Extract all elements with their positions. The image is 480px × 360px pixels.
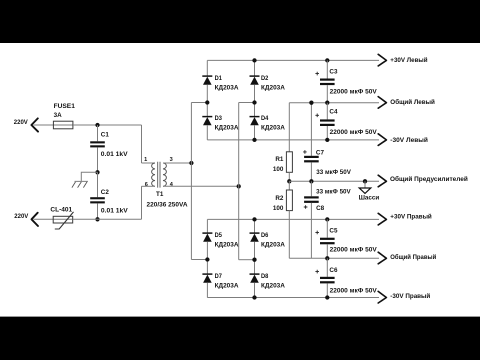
svg-text:C1: C1 [101, 131, 110, 138]
wire pin3 bus to D5/D7 junction [191, 259, 207, 261]
output arrow head (-30V Правый) [378, 291, 386, 303]
wire D5 anode to D7 cathode [206, 242, 208, 274]
wire rail Общий Предусилителей [289, 180, 379, 182]
wire D1 anode to D3 cathode [206, 85, 208, 117]
wire C1 top lead [97, 125, 99, 141]
output arrow head (+30V Левый) [378, 54, 386, 66]
wire R2 top lead [288, 181, 290, 190]
wire C5 top lead [326, 219, 328, 237]
wire mains bottom: arrow to varistor [34, 218, 54, 220]
wire R2 bottom to ОбщП rail [288, 211, 290, 259]
wire down to T1 pin 1 [141, 125, 143, 163]
svg-text:D1: D1 [215, 75, 223, 82]
svg-text:КД203А: КД203А [261, 125, 285, 132]
svg-text:КД203А: КД203А [215, 242, 239, 249]
svg-text:22000 мкФ 50V: 22000 мкФ 50V [330, 129, 378, 136]
resistor R1 [286, 152, 292, 173]
output arrow head (Общий Правый) [378, 252, 386, 264]
polarity "+" of C6 [315, 270, 319, 274]
svg-text:Общий Правый: Общий Правый [390, 253, 436, 261]
wire rail Общий Правый [289, 257, 379, 259]
wire D6 top lead [254, 219, 256, 233]
wire C6 bottom lead [326, 283, 328, 297]
svg-text:D8: D8 [261, 273, 269, 280]
wire D1 top lead [206, 60, 208, 76]
wire pin3 vertical bus [190, 103, 192, 260]
wire C2 bottom lead [97, 203, 99, 219]
wire C1 bottom to mid junction [97, 147, 99, 172]
svg-text:T1: T1 [156, 191, 164, 198]
wire T1 pin 4 to AC node [163, 185, 239, 187]
wire D2 top lead [254, 60, 256, 76]
svg-text:33 мкФ 50V: 33 мкФ 50V [316, 169, 351, 176]
svg-text:+30V Левый: +30V Левый [390, 56, 427, 64]
capacitor C4 plates [320, 119, 335, 126]
svg-text:0.01 1kV: 0.01 1kV [101, 151, 129, 158]
wire varistor to transformer corner [73, 218, 142, 220]
wire rail +30V Левый [207, 59, 379, 61]
svg-text:FUSE1: FUSE1 [54, 103, 76, 110]
svg-text:КД203А: КД203А [215, 85, 239, 92]
diode D8 (КД203А), cathode bar top, triangle pointing up [250, 274, 260, 283]
svg-text:R1: R1 [275, 156, 284, 163]
polarity "+" of C8 [304, 205, 308, 209]
diode D3 (КД203А), cathode bar top, triangle pointing up [202, 117, 212, 126]
node junction mains-bottom / C2 [95, 217, 99, 221]
wire C5 bottom lead [326, 244, 328, 258]
svg-text:220/36 250VA: 220/36 250VA [147, 202, 188, 209]
capacitor C6 plates [320, 277, 335, 284]
svg-text:D2: D2 [261, 75, 269, 82]
node junction C1/C2/ground [95, 170, 99, 174]
svg-text:6: 6 [145, 182, 148, 188]
wire pin4 bus to D6/D8 junction [239, 259, 255, 261]
svg-text:КД203А: КД203А [215, 283, 239, 290]
svg-text:3: 3 [170, 157, 173, 163]
svg-text:22000 мкФ 50V: 22000 мкФ 50V [330, 247, 378, 254]
transformer T1 core [158, 162, 160, 188]
polarity "+" of C3 [315, 72, 319, 76]
output arrow head (Общий Левый) [378, 97, 386, 109]
node node D2 top on +30L rail [252, 58, 256, 62]
svg-text:220V: 220V [14, 214, 28, 220]
node node C4 bottom on -30L rail [325, 138, 329, 142]
wire mains top: arrow to fuse [34, 124, 54, 126]
wire C6 top lead [326, 258, 328, 277]
node D2/D4 AC junction [252, 100, 256, 104]
wire C3 bottom lead [326, 85, 328, 103]
wire C7 bottom lead [310, 162, 312, 181]
svg-text:CL-401: CL-401 [50, 206, 72, 213]
diode D4 (КД203А), cathode bar top, triangle pointing up [250, 117, 260, 126]
wire rail -30V Правый [207, 297, 379, 299]
svg-text:220V: 220V [14, 120, 28, 126]
diode D2 (КД203А), cathode bar top, triangle pointing up [250, 76, 260, 85]
diode D5 (КД203А), cathode bar top, triangle pointing up [202, 233, 212, 242]
220V input arrow (bottom line) [32, 213, 39, 226]
wire up to T1 pin 6 [141, 186, 143, 219]
svg-text:22000 мкФ 50V: 22000 мкФ 50V [330, 287, 378, 294]
svg-text:C8: C8 [316, 205, 325, 212]
polarity "+" of C5 [315, 231, 319, 235]
node node C3/C4 on ОбщЛ rail [325, 101, 329, 105]
svg-text:D4: D4 [261, 115, 269, 122]
svg-text:R2: R2 [275, 195, 284, 202]
chassis ground symbol (Шасси) [359, 181, 371, 193]
node node C6 bottom on -30R rail [325, 295, 329, 299]
wire D7 bottom lead [206, 283, 208, 298]
node D6/D8 AC junction [252, 258, 256, 262]
svg-text:КД203А: КД203А [215, 125, 239, 132]
wire fuse to transformer corner [73, 124, 142, 126]
fuse FUSE1 body [53, 121, 73, 129]
svg-text:Шасси: Шасси [359, 195, 380, 202]
svg-text:КД203А: КД203А [261, 283, 285, 290]
polarity "+" of C4 [315, 114, 319, 118]
diode D7 (КД203А), cathode bar top, triangle pointing up [202, 274, 212, 283]
node node C7/C8 on mid rail [309, 179, 313, 183]
transformer T1 primary winding [142, 163, 156, 186]
wire R1 bottom lead [288, 172, 290, 181]
svg-text:D5: D5 [215, 232, 223, 239]
svg-text:C5: C5 [329, 227, 338, 234]
node node D8 bottom on -30R rail [252, 295, 256, 299]
svg-text:C3: C3 [329, 69, 338, 76]
svg-text:D7: D7 [215, 273, 223, 280]
svg-text:C7: C7 [316, 149, 325, 156]
svg-text:D6: D6 [261, 232, 269, 239]
svg-text:C2: C2 [101, 189, 110, 196]
svg-text:22000 мкФ 50V: 22000 мкФ 50V [330, 89, 378, 96]
wire D5 top lead [206, 219, 208, 233]
earth ground symbol [72, 172, 98, 187]
wire C4 top lead [326, 103, 328, 120]
resistor R2 [286, 190, 292, 211]
node D5/D7 AC junction [205, 257, 209, 261]
output arrow head (+30V Правый) [378, 213, 386, 225]
wire D2 anode to D4 cathode [254, 85, 256, 117]
capacitor C5 plates [320, 238, 335, 245]
svg-text:+30V Правый: +30V Правый [390, 213, 432, 221]
capacitor C8 plates [304, 196, 319, 203]
wire C8 bottom to ОбщП rail [310, 203, 312, 258]
wire D4 bottom lead [254, 125, 256, 140]
node node C5/C6 on ОбщП rail [325, 256, 329, 260]
svg-text:D3: D3 [215, 115, 223, 122]
wire mid junction to C2 top [97, 172, 99, 197]
wire pin4 bus to D2/D4 junction [239, 102, 255, 104]
transformer T1 secondary winding [163, 163, 166, 186]
220V input arrow (top line) [31, 118, 38, 131]
node node C3 top on +30L rail [325, 58, 329, 62]
svg-text:3A: 3A [54, 112, 63, 119]
wire C3 top lead [326, 60, 328, 78]
wire C4 bottom lead [326, 126, 328, 140]
capacitor C2 plates [90, 197, 105, 203]
wire rail -30V Левый [207, 139, 379, 141]
svg-text:0.01 1kV: 0.01 1kV [101, 207, 129, 214]
node secondary pin 4 node [237, 184, 241, 188]
node junction mains-top / C1 [95, 123, 99, 127]
svg-text:КД203А: КД203А [261, 242, 285, 249]
svg-text:1: 1 [144, 157, 147, 163]
svg-text:C6: C6 [329, 267, 338, 274]
diode D6 (КД203А), cathode bar top, triangle pointing up [250, 233, 260, 242]
varistor/thermistor CL-401 [53, 212, 73, 229]
wire D8 bottom lead [254, 283, 256, 298]
svg-text:100: 100 [273, 166, 284, 173]
output arrow head (-30V Левый) [378, 134, 386, 146]
output arrow head (Общий Предусилителей) [378, 175, 386, 187]
svg-text:-30V Левый: -30V Левый [390, 136, 428, 144]
diode D1 (КД203А), cathode bar top, triangle pointing up [202, 76, 212, 85]
svg-text:100: 100 [273, 205, 284, 212]
wire D6 anode to D8 cathode [254, 242, 256, 274]
svg-text:Общий Левый: Общий Левый [390, 98, 435, 106]
node R1/R2 junction on mid rail [287, 179, 291, 183]
capacitor C3 plates [320, 79, 335, 86]
wire pin4 vertical bus [238, 103, 240, 260]
wire rail +30V Правый [207, 218, 379, 220]
node node D4 bottom on -30L rail [252, 138, 256, 142]
svg-text:C4: C4 [329, 109, 338, 116]
wire pin3 bus to D1/D3 junction [191, 102, 207, 104]
svg-text:КД203А: КД203А [261, 85, 285, 92]
node node D6 top on +30R rail [252, 217, 256, 221]
node node C7 top on ОбщЛ rail [309, 101, 313, 105]
wire D3 bottom lead [206, 125, 208, 140]
wire C8 top lead [310, 181, 312, 196]
wire rail Общий Левый [289, 102, 379, 104]
node node C5 top on +30R rail [325, 217, 329, 221]
polarity "+" of C7 [303, 150, 307, 154]
wire C7 top lead [310, 103, 312, 156]
capacitor C7 plates [304, 156, 319, 163]
node D1/D3 AC junction [205, 100, 209, 104]
node secondary pin 3 node [189, 161, 193, 165]
wire R1 top lead [288, 103, 290, 152]
svg-text:-30V Правый: -30V Правый [390, 292, 430, 300]
svg-text:Общий Предусилителей: Общий Предусилителей [390, 175, 468, 183]
node chassis tap on mid rail [363, 179, 367, 183]
svg-text:33 мкФ 50V: 33 мкФ 50V [316, 189, 351, 196]
wire T1 pin 3 to AC node [163, 162, 191, 164]
capacitor C1 plates [90, 141, 105, 147]
